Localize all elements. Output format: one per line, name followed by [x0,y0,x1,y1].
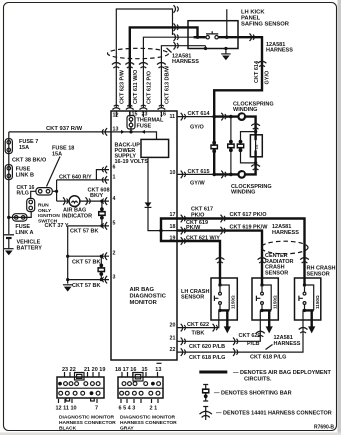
node bus pin2 [66,255,69,258]
chevron pin 6 [102,166,107,174]
svg-text:T/BK: T/BK [192,331,205,337]
thermal fuse F1 [127,115,164,132]
node center feed [260,283,263,286]
svg-text:SENSOR: SENSOR [265,270,288,276]
legend text air bag deployment [233,370,332,383]
wire CKT 612 P/O pin 23 [143,37,193,108]
chevron indicator right [86,197,91,205]
svg-text:CKT 57 BK: CKT 57 BK [72,283,100,289]
wire CKT 615 pin 10 to junction [177,173,214,175]
svg-text:21: 21 [170,336,176,342]
monitor connector chevrons top pins [112,105,165,109]
svg-text:HARNESS CONNECTOR: HARNESS CONNECTOR [59,420,116,426]
svg-text:CKT 611 W/O: CKT 611 W/O [133,69,139,104]
RH sensor box [295,278,321,320]
svg-text:CKT 618 P/LG: CKT 618 P/LG [250,355,286,361]
clockspring winding bottom coil [238,171,245,178]
node safing output [225,36,228,39]
LH sensor resistor 1150ohm [220,285,236,310]
shorting bar bypass loop [241,132,256,163]
svg-text:7: 7 [95,406,98,412]
harness ellipse 12A581 [108,48,169,58]
wire junction to clockspring top (deployment) [214,115,238,117]
wire D jog into box bottom [205,46,207,49]
chevron on CKT615 run [221,171,226,179]
wire shorting link pin2-pin3 [100,256,102,279]
node RH bottom [303,309,306,312]
svg-text:SWITCH: SWITCH [38,218,58,224]
chevron RH drop [300,258,309,264]
safing switch S1 [206,31,218,39]
wire branch to pin 6 [96,170,109,180]
RH sensor resistor 1150ohm [305,285,321,310]
svg-text:R7690-B: R7690-B [314,425,334,431]
wire ground bus vertical [67,226,69,284]
svg-text:1150Ω: 1150Ω [231,295,236,309]
label RH CRASH SENSOR [307,266,336,278]
svg-text:FUSE: FUSE [137,124,152,130]
wire B into switch [194,36,206,38]
svg-text:6: 6 [113,165,116,171]
svg-text:CKT 618 P/LG: CKT 618 P/LG [189,355,225,361]
wire diode to pin 18 [148,207,177,230]
svg-text:CKT 640 R/Y: CKT 640 R/Y [59,174,92,180]
wire clockspring bottom to junction (deployment) [214,173,238,175]
svg-text:LINK A: LINK A [15,230,33,236]
legend deployment circuit sample [199,371,227,374]
svg-text:P/LB: P/LB [247,341,260,347]
svg-text:PK/O: PK/O [191,213,205,219]
svg-text:— DENOTES 14401 HARNESS CONNEC: — DENOTES 14401 HARNESS CONNECTOR [216,411,332,417]
svg-text:13: 13 [155,367,161,373]
label AIR BAG DIAGNOSTIC MONITOR [130,287,167,306]
node fuse18 junction [55,190,58,193]
svg-text:INDICATOR: INDICATOR [62,214,92,220]
svg-text:AIR BAG: AIR BAG [130,287,155,293]
svg-text:MONITOR: MONITOR [130,300,158,306]
RH bottom bar [303,309,314,311]
svg-text:HARNESS: HARNESS [274,341,301,347]
svg-text:3: 3 [113,275,116,281]
svg-text:GY/W: GY/W [190,181,205,187]
node ground junction [224,47,227,50]
svg-text:15: 15 [142,367,148,373]
node pin2 link [100,255,103,258]
svg-text:CKT 622: CKT 622 [187,322,209,328]
node CKT614 junction [212,115,216,119]
svg-text:2: 2 [113,251,116,257]
label CKT 608 BK/Y [88,188,110,200]
fuse 18 [36,188,52,195]
chevron pin 18 [181,227,186,235]
svg-text:20: 20 [170,323,176,329]
label CKT 622 T/BK [187,322,209,337]
air bag indicator lamp [69,196,80,207]
svg-text:HARNESS CONNECTOR: HARNESS CONNECTOR [120,420,177,426]
svg-text:DIAGNOSTIC MONITOR: DIAGNOSTIC MONITOR [59,415,115,421]
connector chevrons on vertical wires (14401) [112,63,166,69]
svg-text:WINDING: WINDING [231,190,255,196]
wire backup supply to diode [147,157,149,202]
label CLOCKSPRING WINDING (bottom) [231,184,272,196]
svg-text:2 1: 2 1 [150,406,158,412]
chevron pin 20 [181,324,186,332]
igniter squib R0 [254,135,258,157]
wire pin13 to backup supply [111,132,157,140]
svg-text:BK/Y: BK/Y [90,193,103,199]
RH sensor switch [299,278,306,304]
svg-text:R/LG: R/LG [17,191,29,197]
wire shorting link pin4-pin5 [101,201,103,226]
legend 14401 connector symbol [200,407,212,421]
label LH KICK PANEL SAFING SENSOR [241,10,290,28]
air bag diagnostic monitor box [111,111,177,360]
shorting bar vertical (clockspring) [230,117,232,175]
fuse link A [12,214,33,236]
wire center thin exit CKT 620 [177,310,260,341]
node igniter top [254,130,257,133]
label FUSE 18 15A with leader [47,146,75,187]
svg-text:GRAY: GRAY [120,426,134,432]
svg-text:CKT 612 P/O: CKT 612 P/O [146,70,152,104]
node clockspring bottom [229,173,233,177]
svg-text:CKT 620: CKT 620 [239,333,261,339]
svg-text:21 20 19: 21 20 19 [84,367,105,373]
node bus pin3 [66,278,69,281]
svg-text:12 11 10: 12 11 10 [56,406,77,412]
label CKT 620 P/LB (harness) [239,333,261,347]
arrow LH deployment [224,326,231,333]
wire battery feed vertical [8,132,10,234]
chevron pin 10 [181,171,186,179]
chevron CKT620 [233,338,238,346]
svg-text:4: 4 [113,196,116,202]
svg-text:SENSOR: SENSOR [307,271,330,277]
legend shorting bar symbol [202,385,210,402]
chevron safing output [250,33,255,41]
wire switch to output [218,36,247,38]
wire CKT 57 BK pin 2 [68,255,109,257]
svg-text:17: 17 [170,212,176,218]
label CKT 617 PK/O (pin) [191,207,213,219]
chevron pin 4 [102,197,107,205]
label 12A581 HARNESS (sensors) [272,224,299,236]
svg-text:HARNESS: HARNESS [266,48,293,54]
label CKT 615 GY/W [188,169,210,187]
wire RH thin exit CKT 618 [177,310,303,352]
wire CKT 614 safing to junction (deployment) [214,37,262,174]
center sensor box [252,278,278,320]
svg-text:CKT 57 BK: CKT 57 BK [70,229,98,235]
svg-text:HARNESS: HARNESS [272,230,299,236]
svg-text:15A: 15A [52,151,62,157]
chevron RH exit [299,328,308,334]
LH sensor box [211,278,237,320]
node LH feed [218,283,221,286]
fuse 7 [5,139,38,154]
run only ignition switch [27,198,61,224]
svg-text:CKT 614: CKT 614 [254,60,260,83]
chevron pin 3 [102,276,107,284]
shorting bar (pins 2/3) [97,264,105,276]
wire CKT 37 Y battery to switch [9,211,31,217]
svg-text:WINDING: WINDING [233,107,257,113]
wire CKT 640 R/Y [57,179,109,181]
wire CKT 621 W/Y (deployment) [177,241,220,278]
svg-text:18 17 16: 18 17 16 [115,367,136,373]
wire RH deployment exit [311,310,313,327]
wire LH thin exit to CKT 622 [177,310,219,327]
svg-text:1150Ω: 1150Ω [273,295,278,309]
wire center deployment exit [268,310,270,327]
chevron on CKT614 vertical [258,61,267,66]
chevron pin 1 [102,176,107,184]
svg-text:10: 10 [170,170,176,176]
svg-text:CKT 621 W/Y: CKT 621 W/Y [186,236,220,242]
label CKT 619 PK/W (pin) [186,220,208,231]
svg-text:DIAGNOSTIC MONITOR: DIAGNOSTIC MONITOR [120,415,176,421]
svg-text:CKT 937 R/W: CKT 937 R/W [46,126,83,132]
center bottom bar [260,309,271,311]
LH bottom bar [219,309,230,311]
svg-text:1150Ω: 1150Ω [315,295,320,309]
node pin4 wire [100,200,103,203]
chevron pin 13 [102,128,107,136]
svg-text:GY/O: GY/O [190,125,204,131]
node D junction [204,47,207,50]
wire CKT 619 PK/W (deployment) [177,231,262,278]
label CENTER RADIATOR CRASH SENSOR [265,253,294,276]
label LH CRASH SENSOR [181,289,209,301]
node CKT615 junction [212,173,216,177]
node RH feed [303,283,306,286]
vehicle battery [4,235,43,256]
svg-text:BLACK: BLACK [59,426,77,432]
svg-text:— DENOTES SHORTING BAR: — DENOTES SHORTING BAR [214,391,292,397]
svg-text:1Ω: 1Ω [254,145,258,150]
svg-text:6 5 4 3: 6 5 4 3 [119,406,136,412]
chevron pin 19 [181,237,186,245]
label 12A581 HARNESS (top) [167,48,200,65]
pin 23 [142,111,148,118]
shorting bar (14401 harness) [210,141,218,153]
chevron indicator left [63,197,68,205]
svg-text:SAFING SENSOR: SAFING SENSOR [241,22,290,28]
label CKT 614 GY/O (vertical) [254,60,270,84]
svg-text:CKT 615: CKT 615 [188,169,210,175]
svg-text:CKT 613 DB/W: CKT 613 DB/W [164,65,170,104]
wire CKT 623 P/W pin 12 [116,9,172,109]
wire CKT 611 W/O pin 15 (deployment) [130,27,198,108]
node pin5 wire [100,224,103,227]
svg-text:15A: 15A [19,145,29,151]
wire to air bag indicator [57,200,69,202]
LH sensor switch [214,278,221,304]
diode CR1 [145,202,152,207]
chevron LH drop [216,258,225,264]
svg-text:16-19 VOLTS: 16-19 VOLTS [115,159,149,165]
chevron igniter bottom [251,165,260,171]
diagnostic monitor harness connector gray [115,363,177,431]
label AIR BAG INDICATOR [62,208,92,220]
node pin13 wire marks [121,130,145,134]
svg-text:18: 18 [170,224,176,230]
label CKT 614 GY/O (pin 11) [188,111,211,131]
wire fuse 18 to junction [52,190,56,192]
svg-text:ONLY: ONLY [38,208,52,214]
pin 15 [130,111,138,118]
wire CKT 613 DB/W pin 16 [161,46,205,109]
svg-text:23 22: 23 22 [62,367,76,373]
wire CKT 937 R/W to pin 13 [9,131,111,133]
svg-text:GY/O: GY/O [264,70,270,84]
wire LH deployment exit [226,310,228,327]
node LH bottom [218,309,221,312]
chevron on CKT614 run [221,113,226,121]
chevron pin 21 [181,338,186,346]
svg-text:CKT 38 BK/O: CKT 38 BK/O [12,158,47,164]
chevron CKT619 14401 [221,227,226,235]
arrow center deployment [266,326,273,333]
chevron pin 11 [181,113,186,121]
chevron center drop [258,258,267,264]
svg-text:CKT 617 PK/O: CKT 617 PK/O [230,212,268,218]
chevron CKT617 14401 [221,215,226,223]
clockspring winding top coil [238,113,245,120]
svg-text:CKT 614: CKT 614 [188,111,211,117]
chevrons on top horizontal runs [174,5,179,49]
svg-text:5: 5 [113,221,116,227]
svg-text:1: 1 [113,175,116,181]
shorting bar (module) [237,140,245,152]
svg-text:CIRCUITS.: CIRCUITS. [244,377,272,383]
svg-text:DIAGNOSTIC: DIAGNOSTIC [130,294,167,300]
node pin3 link [100,278,103,281]
label CLOCKSPRING WINDING (top) [233,102,274,114]
svg-text:IGNITION: IGNITION [38,213,60,219]
chevron CKT622 [213,324,218,332]
node bus/diode junction [159,229,162,232]
diagnostic monitor harness connector black [56,367,117,432]
wire coil to igniter top (deployment) [245,117,256,136]
wire CKT 614 pin 11 to junction [177,116,214,118]
svg-text:CKT 620 P/LB: CKT 620 P/LB [189,344,225,350]
chevron igniter top [251,124,260,130]
svg-text:CKT 623 P/W: CKT 623 P/W [120,69,126,104]
label 12A581 HARNESS (lower) [266,335,301,350]
wire igniter bottom to coil (deployment) [245,157,256,175]
svg-text:— DENOTES AIR BAG DEPLOYMENT: — DENOTES AIR BAG DEPLOYMENT [233,370,332,376]
chevron pin 2 stub [108,255,110,257]
svg-text:CKT 619 PK/W: CKT 619 PK/W [230,225,269,231]
shorting bar (pins 4/5) [98,207,106,219]
svg-text:CKT 57 BK: CKT 57 BK [72,259,100,265]
node clockspring top [229,115,233,119]
svg-text:HARNESS: HARNESS [172,59,199,65]
svg-text:12: 12 [113,113,119,119]
node thermal fuse junction [129,130,132,133]
wire riser to CKT 640 [56,180,58,201]
wire indicator to pin 4 [80,200,109,202]
wire CKT 57 BK pin 5 [68,225,109,227]
chevron pin 22 [181,348,186,356]
wire switch to fuse 18 [31,191,36,198]
wire A down to switch output [226,9,228,37]
wire CKT 57 BK pin 3 [68,279,109,281]
chevron CKT618 [233,348,238,356]
fuse link B [5,165,34,180]
svg-text:PK/W: PK/W [186,225,201,231]
node battery junction [7,216,10,219]
center sensor switch [256,278,263,304]
label 12A581 HARNESS (right) [266,42,293,54]
chevron pin 2 [102,252,107,260]
chevron pin 5 [102,222,107,230]
wire CKT 617 PK/O (deployment) [177,219,305,279]
svg-text:22: 22 [170,347,176,353]
pin 16 [160,111,166,118]
svg-text:RUN: RUN [38,203,49,209]
label CKT 16 R/LG [17,185,35,197]
harness ellipse 12A581 (sensors) [261,241,308,254]
ground (CKT 57 BK) [63,285,73,292]
svg-text:SENSOR: SENSOR [181,295,204,301]
back-up power supply box [115,139,169,165]
svg-text:11: 11 [170,114,176,120]
air bag igniter box [250,135,262,157]
arrow RH deployment [308,326,315,333]
chevron pin 17 [181,215,186,223]
node center bottom [260,309,263,312]
internal deployment bus pins 17/19 [161,219,177,242]
svg-text:BATTERY: BATTERY [17,245,43,251]
page scan edge [338,0,341,435]
pin 12 [113,111,119,119]
ground (safing sensor) [221,49,230,61]
node igniter bottom [254,161,257,164]
center sensor resistor 1150ohm [262,285,278,310]
safing sensor box [188,21,238,49]
chevron center exit [256,331,265,337]
shorting bar (clockspring) [227,140,235,152]
svg-text:LINK B: LINK B [16,172,34,178]
